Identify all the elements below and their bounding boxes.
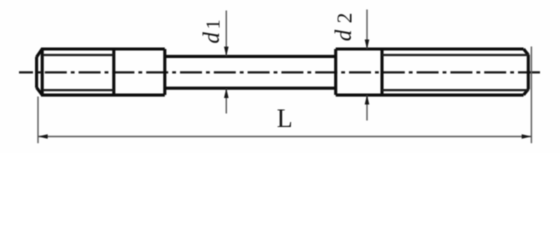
thread end line (left) [112,49,115,95]
svg-text:d: d [199,32,224,44]
top crest line right section [336,47,524,50]
centerline (dash-dot axis) [19,71,541,73]
bottom crest line left section [41,94,165,97]
svg-text:d: d [331,29,356,41]
L arrow left [38,134,48,139]
left chamfer diagonal top [37,49,43,57]
middle rod bottom [165,87,336,90]
thread start line (right) [380,49,383,95]
stud body outline [37,49,529,95]
left thread minor bottom [43,89,114,91]
L arrow right [522,134,532,139]
collar left face [334,49,337,95]
svg-text:L: L [277,104,293,133]
d2 arrow onto collar bottom [365,95,370,105]
dimension and extension lines [38,10,531,144]
top crest line left section [41,47,165,50]
right thread minor top [382,54,528,56]
thread minor diameter thin lines [43,55,528,90]
bottom crest line right section [336,94,524,97]
d2 dimension line lower [366,95,368,120]
right thread minor bottom [382,89,528,91]
svg-text:1: 1 [203,19,225,29]
d2 dimension line upper [366,10,368,49]
left chamfer line [41,49,44,95]
d1 arrow onto rod top [224,47,229,57]
left end face [35,57,38,88]
d1 arrow onto rod bottom [224,88,229,98]
left thread minor top [43,54,114,56]
middle rod top [165,55,336,58]
L extension line right [530,47,532,144]
d1 dimension line upper [225,11,227,57]
arrowheads [38,40,531,139]
right end face [527,55,530,90]
L dimension line [38,136,531,138]
left chamfer diagonal bottom [37,88,43,95]
L extension line left [37,97,39,144]
d1 dimension line lower [225,89,227,114]
svg-text:2: 2 [332,13,356,24]
shoulder step to middle rod [163,49,166,95]
right chamfer diagonal bottom [524,89,529,95]
right chamfer diagonal top [524,49,529,55]
d2 arrow onto collar top [365,40,370,50]
